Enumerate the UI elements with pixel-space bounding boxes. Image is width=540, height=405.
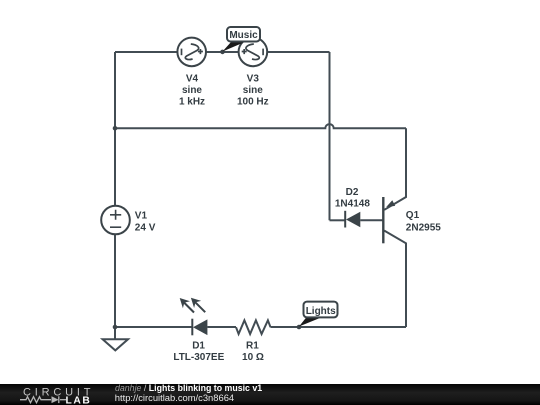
svg-text:Music: Music	[229, 30, 258, 41]
svg-text:Lights: Lights	[306, 306, 336, 317]
svg-text:24 V: 24 V	[135, 223, 156, 234]
svg-text:LAB: LAB	[66, 395, 92, 405]
svg-text:LTL-307EE: LTL-307EE	[173, 352, 224, 363]
svg-text:Q1: Q1	[406, 210, 420, 221]
svg-text:V1: V1	[135, 211, 148, 222]
svg-text:2N2955: 2N2955	[406, 223, 441, 234]
svg-text:http://circuitlab.com/c3n8664: http://circuitlab.com/c3n8664	[115, 392, 234, 403]
svg-text:1N4148: 1N4148	[335, 198, 370, 209]
svg-text:sine: sine	[182, 85, 202, 96]
svg-text:D2: D2	[346, 187, 359, 198]
svg-text:10 Ω: 10 Ω	[242, 352, 264, 363]
svg-text:V3: V3	[247, 73, 260, 84]
svg-text:sine: sine	[243, 85, 263, 96]
svg-text:D1: D1	[192, 340, 205, 351]
svg-text:1 kHz: 1 kHz	[179, 96, 205, 107]
svg-text:100 Hz: 100 Hz	[237, 96, 269, 107]
svg-text:V4: V4	[186, 73, 199, 84]
svg-text:R1: R1	[246, 340, 259, 351]
